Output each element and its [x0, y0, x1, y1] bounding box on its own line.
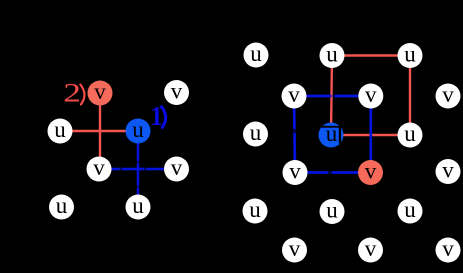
wire: right blue square bottom edge v-redv dashed — [295, 171, 371, 174]
svg-text:u: u — [56, 193, 68, 218]
node white u row0 col4 (right figure) — [398, 42, 423, 69]
node white u row4 col4 (right figure) — [398, 197, 423, 224]
node red v (left figure) — [88, 79, 113, 106]
svg-text:v: v — [93, 155, 105, 180]
svg-text:v: v — [289, 159, 301, 184]
svg-text:u: u — [54, 117, 66, 142]
wire: left red horizontal edge u-u — [60, 130, 138, 132]
wire: left red vertical edge v-v — [99, 93, 101, 169]
svg-text:u: u — [326, 198, 338, 223]
svg-text:v: v — [171, 155, 183, 180]
wire: right blue square left edge v-v dashed — [294, 96, 295, 173]
svg-text:v: v — [442, 236, 454, 261]
node blue u (left figure) — [126, 117, 151, 144]
wire: right red square top edge u-u — [332, 54, 410, 56]
svg-text:u: u — [250, 41, 262, 66]
node white v row5 col3 (right figure) — [358, 236, 383, 263]
svg-text:u: u — [132, 193, 144, 218]
node blue ubar (right figure) — [319, 121, 344, 148]
svg-text:v: v — [442, 82, 454, 107]
svg-text:u: u — [250, 120, 262, 145]
wire: left blue dashed vertical edge u-u — [137, 131, 139, 207]
node white u row2 col0 (right figure) — [243, 120, 268, 147]
node white v row1 col5 (right figure) — [436, 82, 461, 109]
node white v mid-left (left figure) — [87, 155, 112, 182]
node white u row4 col0 (right figure) — [243, 197, 268, 224]
svg-text:v: v — [94, 79, 106, 104]
node white v row1 col1 (right figure) — [282, 82, 307, 109]
wire: right red square bottom edge u-ubar — [331, 134, 410, 136]
node white u row0 col0 (right figure) — [244, 41, 269, 68]
svg-text:u: u — [132, 117, 144, 142]
node white v mid-right (left figure) — [164, 155, 189, 182]
svg-text:v: v — [289, 236, 301, 261]
svg-text:u: u — [326, 121, 338, 146]
svg-text:u: u — [404, 42, 416, 67]
wire: right red square right edge u-u — [409, 56, 411, 136]
wire: left blue dashed vertical edge u-u (underlay) — [137, 131, 139, 207]
svg-text:v: v — [171, 79, 183, 104]
node white v row1 col3 (right figure) — [358, 82, 383, 109]
svg-text:u: u — [326, 42, 338, 67]
node white u bottom-mid (left figure) — [126, 193, 151, 220]
node red v (right figure) — [358, 159, 383, 186]
node white u row4 col2 (right figure) — [320, 198, 345, 225]
node white u row2 col4 (right figure) — [398, 121, 423, 148]
svg-text:v: v — [365, 82, 377, 107]
svg-text:v: v — [442, 158, 454, 183]
wire: left blue dashed horizontal edge v-v — [99, 168, 177, 170]
node white v top-right (left figure) — [164, 79, 189, 106]
node white u left (left figure) — [48, 117, 73, 144]
wire: left blue dashed horizontal edge v-v (underlay) — [99, 168, 177, 170]
svg-text:u: u — [404, 121, 416, 146]
node white v row5 col5 (right figure) — [436, 236, 461, 263]
svg-text:u: u — [249, 197, 261, 222]
node white v row5 col1 (right figure) — [282, 236, 307, 263]
wire: right red square left edge u-ubar — [331, 56, 332, 136]
svg-text:v: v — [365, 159, 377, 184]
svg-text:v: v — [365, 236, 377, 261]
svg-text:u: u — [404, 197, 416, 222]
wire: right blue square top edge v-v dashed — [294, 95, 371, 98]
node white v row3 col5 (right figure) — [436, 158, 461, 185]
wire: right blue square right edge v-redv dashed — [369, 96, 372, 173]
svg-text:v: v — [288, 82, 300, 107]
node white u bottom-left (left figure) — [49, 193, 74, 220]
node white v row3 col1 (right figure) — [283, 159, 308, 186]
node white u row0 col2 (right figure) — [320, 42, 345, 69]
svg-text:2: 2 — [63, 78, 81, 107]
